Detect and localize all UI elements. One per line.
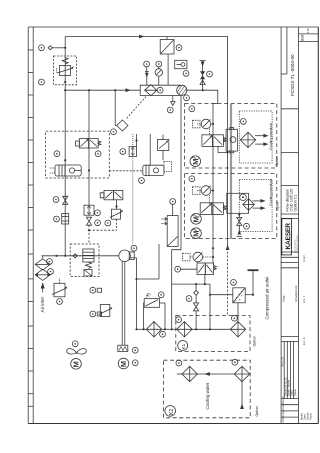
wire: K2 inlet riser — [240, 382, 244, 409]
inlet valve cartridge 2 — [143, 165, 164, 175]
inlet valve option dashed box D2 — [46, 131, 110, 178]
D2 instrument circle left — [54, 151, 60, 157]
drain sensor circle — [167, 107, 173, 113]
svg-text:Cooling medium: Cooling medium — [269, 179, 273, 206]
safety valve — [175, 60, 187, 68]
option box S1 cooling medium — [185, 104, 277, 169]
K2 right sensor circle — [232, 359, 238, 365]
svg-text:Cooling medium: Cooling medium — [269, 123, 273, 150]
regulator valve body — [57, 66, 74, 76]
drawing number text — [281, 28, 313, 423]
S2 cooler box — [227, 193, 249, 213]
S2 fan motor 1 — [191, 214, 202, 225]
svg-text:Option C1: Option C1 — [293, 194, 297, 211]
proportional controller dashed box D1 — [54, 56, 77, 85]
svg-text:1 Bl.: 1 Bl. — [306, 28, 310, 33]
wire: oil return py327.5 — [137, 328, 147, 330]
solenoid valve Y1 — [76, 139, 101, 148]
tank gauge stem — [147, 67, 159, 85]
wire: to dryer — [210, 294, 233, 296]
K1 heat exchanger right — [230, 322, 245, 337]
pressure transducer circle — [90, 287, 102, 293]
oil thermo valve block — [144, 293, 165, 329]
svg-text:Name: Name — [309, 413, 313, 420]
S2 drain valve — [237, 215, 242, 231]
wire: V2 dashed lower — [88, 225, 90, 244]
check valve box on V2 — [84, 205, 94, 215]
drive shaft — [122, 261, 125, 345]
border frame — [28, 27, 318, 424]
wire: drain dashed bus py230 — [89, 229, 117, 231]
motor sensor circle — [132, 360, 138, 366]
wire: control bus py90 — [65, 89, 140, 91]
fan TL sensor circle — [72, 341, 78, 347]
bypass valve main — [197, 263, 216, 275]
oil filter diamond — [146, 322, 161, 337]
main motor M — [118, 358, 129, 369]
vent line arrow — [200, 61, 206, 91]
label Compressed air outlet — [264, 276, 269, 320]
wire: flow arrow on bus py90 — [126, 88, 132, 92]
oil filter circle — [160, 331, 166, 337]
svg-text:Option: Option — [275, 156, 279, 166]
K2 circle label — [165, 406, 176, 417]
svg-text:Urspr.: Urspr. — [282, 295, 286, 302]
blow-off pilot circle — [207, 71, 213, 77]
K2 heat exchanger right — [234, 366, 249, 381]
Blatt box top right — [299, 33, 319, 35]
zone tick marks left band — [28, 50, 33, 406]
air inlet arrow — [41, 283, 45, 293]
separator instrument circle — [157, 87, 163, 93]
instrument circle B1 — [39, 45, 45, 51]
wire: tank top manifold — [186, 89, 218, 91]
svg-text:04.02.15: 04.02.15 — [281, 356, 285, 367]
D2 instrument circle right — [95, 151, 101, 157]
cartridge 2 pilot dashed box — [164, 162, 172, 172]
wire: condensate dashed vertical px228.5 — [227, 244, 229, 315]
riser instrument circle — [176, 45, 182, 51]
S1 heat exchanger — [240, 132, 255, 147]
solenoid valve Y2 — [100, 190, 123, 199]
valve3 port circle — [175, 266, 181, 272]
wire: branch V2 — [88, 90, 90, 205]
V2 valve circle — [95, 220, 101, 226]
scavenge sight glass circle — [111, 129, 117, 135]
svg-text:KOMPRESSOREN: KOMPRESSOREN — [291, 231, 293, 249]
label Air inlet — [40, 296, 45, 312]
scavenge valve — [194, 303, 199, 329]
S2 bypass valve — [200, 203, 226, 215]
svg-text:Ers. d.: Ers. d. — [302, 337, 306, 345]
svg-text:Anderung: Anderung — [281, 411, 285, 423]
V2 shutoff valve — [86, 217, 91, 225]
K1 heat exchanger left — [177, 322, 192, 337]
S1 sensor circle on pipe — [240, 119, 246, 125]
svg-text:Urspr.: Urspr. — [302, 254, 306, 262]
thermometer main — [183, 252, 214, 262]
wire: oil line py279 stub — [137, 278, 160, 280]
svg-text:Name: Name — [293, 389, 297, 396]
S1 thermometer — [193, 119, 214, 135]
option box S2 cooling medium — [185, 174, 277, 239]
blow-off valve — [200, 71, 205, 79]
svg-text:K1: K1 — [181, 343, 186, 349]
svg-text:Option: Option — [276, 201, 280, 211]
wire: air main px213 — [212, 104, 214, 264]
svg-text:Zeichnungs-Nr.: Zeichnungs-Nr. — [294, 239, 296, 253]
label Option S1 — [275, 156, 279, 166]
fan TL motor M — [71, 359, 82, 370]
wire: V px159 — [158, 244, 160, 279]
wire: airend to oil line — [130, 257, 136, 259]
fan TL blades — [67, 349, 87, 354]
oil separator tank — [140, 85, 187, 95]
svg-text:Datum: Datum — [281, 396, 285, 404]
cartridge 2 circle — [139, 178, 145, 184]
tank drain arrow fitting — [171, 95, 175, 105]
hose fitting on V1 — [62, 214, 69, 225]
svg-text:K2: K2 — [169, 409, 175, 415]
S1 bypass valve — [202, 135, 228, 153]
minimum pressure check valve block — [160, 40, 174, 55]
scavenge orifice — [194, 284, 199, 303]
condensate drain valve 1 — [52, 278, 67, 297]
label Cooling medium S2 — [269, 179, 273, 206]
title block — [281, 27, 318, 424]
pressure transducer circle 2 — [90, 311, 102, 317]
wire: flow arrow on top bus — [139, 35, 145, 39]
svg-text:Compressed air outlet: Compressed air outlet — [264, 276, 269, 320]
tank sensor circle — [184, 95, 190, 101]
svg-text:Option: Option — [255, 406, 259, 417]
air inlet filter 2 — [35, 269, 50, 280]
svg-text:Blatt: Blatt — [301, 35, 305, 41]
instrument circle at valve — [53, 197, 59, 203]
drain mid circle — [105, 220, 111, 226]
pressure relief valve mid — [158, 135, 169, 161]
inlet cartridge pilot box — [84, 270, 92, 277]
shut-off valve on V1 — [63, 196, 68, 204]
connector on inlet line — [73, 254, 77, 258]
wire: bypass valve left stub — [181, 268, 197, 270]
K1 option dashed box — [176, 316, 250, 352]
wire: dryer connections — [245, 270, 253, 295]
label Option S2 — [276, 201, 280, 211]
drain valve mid — [110, 209, 123, 219]
airend compressor — [119, 250, 134, 262]
separator internal cyclone — [145, 85, 157, 96]
vent symbol near gauges — [145, 72, 149, 78]
wire: relief valve branch — [137, 134, 151, 165]
S1 inner dotted box — [239, 111, 272, 163]
connector to B1 — [48, 46, 65, 50]
wire: drain mid dashed down — [116, 219, 118, 230]
regulator spring — [62, 58, 68, 64]
wire: main vertical line V1 — [64, 37, 66, 256]
instrument circle B2 — [39, 79, 45, 85]
oil thermo circle A — [158, 292, 164, 298]
wire: dashed link to cartridge2 — [109, 170, 143, 172]
wire: restrictor dotted vertical — [132, 134, 134, 244]
K1 right sensor circle — [232, 315, 238, 321]
svg-text:FCSDX TL -0004-00: FCSDX TL -0004-00 — [290, 54, 295, 96]
restrictor circle — [120, 149, 126, 155]
wire: oil line px136.5 — [136, 258, 138, 330]
S2 drain arrow — [237, 230, 243, 237]
K2 corner circle — [176, 360, 182, 366]
inlet valve assembly dashed box D3 — [70, 244, 99, 277]
pressure gauge circles — [144, 61, 162, 67]
wire: cooling medium gray pipe — [230, 104, 232, 239]
label Option K2 — [255, 406, 259, 417]
wire: oil injection line — [172, 95, 181, 329]
svg-text:Cooling water: Cooling water — [205, 382, 210, 409]
label Cooling water — [205, 382, 210, 409]
K2 heat exchanger left — [182, 366, 197, 381]
wire: jog at box top — [213, 103, 218, 105]
svg-text:Ers. f.: Ers. f. — [302, 295, 306, 303]
S1 corner circle — [189, 106, 195, 112]
scavenge circle C — [186, 296, 192, 302]
filter instrument circles — [47, 259, 53, 265]
condensate drain valve 2 — [99, 305, 113, 317]
KAESER logo — [282, 219, 299, 255]
svg-text:Name: Name — [281, 403, 285, 410]
drain 1 solenoid circle — [57, 299, 63, 305]
S2 fan motor 2 — [191, 228, 202, 239]
wire: branch V3 to filter diamond — [115, 90, 117, 125]
S2 heat exchanger — [243, 199, 255, 211]
airend sensor circle — [131, 245, 137, 251]
wire: K2 connecting line — [177, 372, 235, 376]
svg-text:Schaltplan-Nr.: Schaltplan-Nr. — [294, 285, 298, 302]
svg-text:FCSDX TL-0004-00: FCSDX TL-0004-00 — [297, 234, 299, 253]
label Cooling medium S1 — [269, 123, 273, 150]
pressure gauge with needle — [155, 69, 162, 76]
wire: Y2 down — [116, 200, 118, 209]
refrigeration dryer — [233, 288, 245, 303]
svg-text:Option: Option — [252, 336, 256, 347]
inlet check cartridge — [83, 249, 94, 268]
coupling — [118, 345, 128, 351]
S2 inner dotted box — [239, 180, 272, 232]
wire: drop to oil return — [209, 284, 211, 329]
wire: MPV to top bus — [167, 37, 168, 86]
wire: tank air feed px217.8 — [217, 90, 219, 103]
safety valve circle — [183, 71, 189, 77]
wire: scavenge header — [172, 283, 210, 285]
S1 coolant arrows — [255, 134, 269, 146]
air inlet filter 1 — [35, 259, 50, 270]
S2 corner circle — [189, 176, 195, 182]
S1 fan motor — [190, 156, 201, 167]
S2 drain circle — [244, 223, 250, 229]
wire: drain diagonal dashed — [127, 97, 147, 119]
inlet valve cartridge 1 — [50, 165, 81, 176]
wire: arrow up on px228.5 — [226, 245, 230, 250]
compressed air outlet flange — [248, 269, 259, 271]
S1 cooler box — [226, 128, 237, 153]
check valve on vent — [200, 80, 205, 85]
coupling sensor circle — [132, 347, 138, 353]
K1 corner circle — [176, 317, 182, 323]
S2 coolant arrows — [253, 199, 266, 210]
K2 option dashed box — [164, 360, 251, 418]
wire: top control bus horizontal — [65, 37, 227, 245]
svg-text:Air inlet: Air inlet — [40, 296, 45, 312]
thermostat circle — [170, 199, 176, 216]
K1 circle label — [178, 341, 188, 351]
wire: valve3 down — [204, 275, 206, 285]
check valve circle — [95, 210, 101, 216]
label Option K1 — [252, 336, 256, 347]
scavenge filter diamond — [117, 120, 128, 131]
wire: dryer to K1 exchanger — [237, 303, 239, 322]
restrictor box — [129, 147, 137, 157]
thermostatic valve block — [161, 216, 178, 247]
S2 thermometer — [193, 186, 214, 203]
dryer circle — [231, 280, 237, 286]
instrument circle at fitting — [54, 216, 60, 222]
wire: filter to inlet line — [42, 256, 120, 258]
